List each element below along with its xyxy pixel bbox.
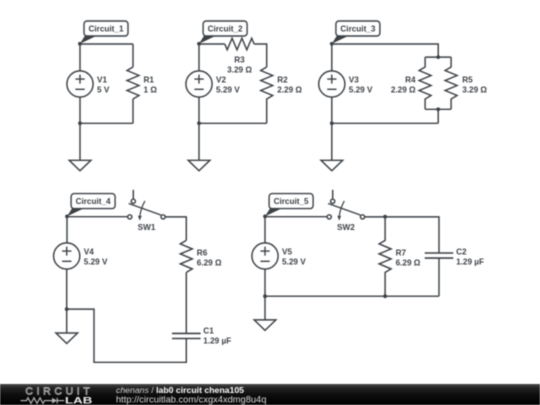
- svg-text:chenans / lab0 circuit chena10: chenans / lab0 circuit chena105: [116, 385, 244, 395]
- wire SW2 to top junction to C2: [365, 217, 439, 253]
- wire R6 to C1: [185, 272, 187, 333]
- svg-text:5.29 V: 5.29 V: [349, 85, 373, 94]
- node label callout Circuit_5: [265, 194, 313, 217]
- svg-text:5 V: 5 V: [97, 85, 110, 94]
- svg-text:R1: R1: [144, 75, 155, 84]
- junction dot C5 bottom left: [263, 294, 267, 298]
- svg-text:LAB: LAB: [65, 396, 92, 405]
- svg-text:Circuit_1: Circuit_1: [88, 25, 123, 34]
- wire V4 bottom: [66, 269, 68, 309]
- svg-text:2.29 Ω: 2.29 Ω: [391, 85, 416, 94]
- svg-text:5.29 V: 5.29 V: [282, 257, 306, 266]
- ground C1: [69, 123, 91, 171]
- wire bottom C1: [80, 122, 133, 124]
- svg-text:Circuit_4: Circuit_4: [76, 197, 111, 206]
- node label callout Circuit_4: [67, 194, 115, 217]
- ground C2: [188, 123, 210, 171]
- switch SW1: [128, 190, 165, 221]
- junction dot C5 bottom mid: [383, 294, 387, 298]
- junction dot C3 split top: [436, 55, 440, 59]
- svg-text:C1: C1: [203, 326, 214, 335]
- svg-text:V5: V5: [282, 247, 292, 256]
- svg-text:V2: V2: [216, 75, 226, 84]
- svg-text:1.29 µF: 1.29 µF: [203, 336, 231, 345]
- resistor R3 (horizontal): [225, 38, 254, 50]
- svg-text:SW2: SW2: [337, 223, 355, 232]
- node label callout Circuit_3: [332, 21, 380, 44]
- wire left C3: node to V3: [331, 44, 333, 71]
- resistor R6: [180, 240, 192, 272]
- svg-text:5.29 V: 5.29 V: [216, 85, 240, 94]
- svg-text:6.29 Ω: 6.29 Ω: [396, 258, 421, 267]
- junction dot C1 bottom: [78, 121, 82, 125]
- wire C1 bottom loop: [67, 309, 187, 362]
- svg-text:http://circuitlab.com/cxgx4xdm: http://circuitlab.com/cxgx4xdmg8u4q: [116, 394, 266, 404]
- svg-text:R6: R6: [197, 248, 208, 257]
- ground C4: [56, 309, 78, 343]
- voltage source V1: [67, 71, 93, 97]
- wire left C2: node to V2: [198, 44, 200, 71]
- node label callout Circuit_1: [80, 21, 128, 44]
- logo resistor-diode symbol: [21, 398, 65, 404]
- wire split bar bottom C3: [425, 108, 451, 110]
- svg-text:1.29 µF: 1.29 µF: [456, 257, 484, 266]
- wire C3 right down to bottom: [437, 109, 439, 123]
- resistor R4: [419, 57, 431, 109]
- svg-text:SW1: SW1: [138, 223, 156, 232]
- wire SW1 to R6 corner: [165, 217, 186, 241]
- svg-text:R7: R7: [396, 248, 407, 257]
- resistor R2: [261, 67, 273, 123]
- wire C2 bottom: [438, 258, 440, 296]
- svg-text:V4: V4: [84, 247, 94, 256]
- footer background bar: [0, 384, 540, 405]
- svg-text:1 Ω: 1 Ω: [144, 85, 158, 94]
- wire V2 bottom: [198, 97, 200, 123]
- svg-text:Circuit_5: Circuit_5: [274, 197, 309, 206]
- ground C3: [321, 123, 343, 171]
- wire C2 node to R3: [199, 43, 225, 45]
- wire bottom C5: [265, 295, 439, 297]
- wire left C5: node to V5: [264, 217, 266, 243]
- wire V5 bottom: [264, 269, 266, 296]
- svg-text:R2: R2: [277, 75, 288, 84]
- ground C5: [254, 296, 276, 330]
- resistor R5: [445, 57, 457, 109]
- junction dot C3 bottom: [330, 121, 334, 125]
- voltage source V2: [186, 71, 212, 97]
- capacitor C1: [172, 333, 201, 338]
- resistor R1: [127, 44, 139, 123]
- wire R3 to corner to R2: [254, 44, 267, 67]
- svg-text:C2: C2: [456, 247, 467, 256]
- wire top C3: [332, 44, 438, 57]
- junction dot C3 node: [330, 42, 334, 46]
- junction dot C3 split bottom: [436, 107, 440, 111]
- svg-text:2.29 Ω: 2.29 Ω: [277, 85, 302, 94]
- voltage source V4: [54, 243, 80, 269]
- junction dot C5 top: [383, 215, 387, 219]
- svg-text:R4: R4: [405, 75, 416, 84]
- wire left C1: node down to V1 top: [79, 44, 81, 71]
- junction dot C2 node: [197, 42, 201, 46]
- svg-text:Circuit_2: Circuit_2: [208, 25, 243, 34]
- svg-text:R5: R5: [462, 75, 473, 84]
- junction dot C1 node: [78, 42, 82, 46]
- node label callout Circuit_2: [199, 21, 247, 44]
- voltage source V3: [319, 71, 345, 97]
- svg-text:V3: V3: [349, 75, 359, 84]
- svg-text:5.29 V: 5.29 V: [84, 257, 108, 266]
- svg-text:V1: V1: [97, 75, 107, 84]
- wire C5 node to SW2: [265, 216, 327, 218]
- svg-text:3.29 Ω: 3.29 Ω: [227, 66, 252, 75]
- resistor R7: [379, 217, 391, 297]
- junction dot C2 bottom: [197, 121, 201, 125]
- svg-text:6.29 Ω: 6.29 Ω: [197, 258, 222, 267]
- switch SW2: [327, 190, 365, 221]
- svg-text:R3: R3: [234, 56, 245, 65]
- svg-text:3.29 Ω: 3.29 Ω: [462, 85, 487, 94]
- capacitor C2: [425, 253, 454, 258]
- wire left C4: node to V4: [66, 217, 68, 243]
- svg-text:Circuit_3: Circuit_3: [340, 25, 375, 34]
- wire C4 node to SW1: [67, 216, 128, 218]
- voltage source V5: [252, 243, 278, 269]
- wire bottom C3: [332, 122, 438, 124]
- junction dot C4 node: [65, 215, 69, 219]
- junction dot C5 node: [263, 215, 267, 219]
- junction dot C4 bottom: [65, 307, 69, 311]
- wire bottom C2: [199, 122, 267, 124]
- wire V1 bottom: [79, 97, 81, 123]
- wire split bar top C3: [425, 56, 451, 58]
- wire V3 bottom: [331, 97, 333, 123]
- wire top C1: node to R1: [80, 43, 133, 45]
